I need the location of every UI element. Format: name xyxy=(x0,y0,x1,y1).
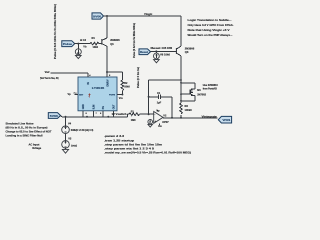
svg-text:2N7002: 2N7002 xyxy=(197,93,206,96)
voltage source at op-amp + input xyxy=(148,120,153,125)
svg-text:M1: M1 xyxy=(197,89,201,92)
pin numbers xyxy=(75,74,111,115)
svg-text:Q1: Q1 xyxy=(110,42,114,46)
ground (under I1) xyxy=(76,55,82,59)
svg-text:Q3: Q3 xyxy=(185,50,189,54)
junction bus/IC pin b xyxy=(107,116,109,118)
svg-text:Pulse (0 3v3 100n 5n 5n 200n 5: Pulse (0 3v3 100n 5n 5n 200n 500u 800m) xyxy=(53,4,57,59)
wire Reset to Q3 base xyxy=(151,50,177,52)
svg-text:Vb: Vb xyxy=(83,45,87,48)
junction R2/IC right pin xyxy=(121,94,123,96)
svg-text:2N3906: 2N3906 xyxy=(185,46,195,50)
svg-text:V01: V01 xyxy=(222,118,231,122)
voltage source V3 eta xyxy=(62,138,77,149)
comment simulated line noise (bottom left) xyxy=(6,121,52,137)
svg-text:td C4: td C4 xyxy=(80,39,87,42)
mosfet M1 2N7002 xyxy=(190,87,206,98)
port flag Reset xyxy=(139,49,151,55)
svg-text:IN: IN xyxy=(88,82,90,85)
transistor Q1 2N3906 PNP xyxy=(101,38,120,46)
resistor R4 10k0 xyxy=(90,37,99,49)
svg-text:Only Have 3.3 V GPIO From FPGA: Only Have 3.3 V GPIO From FPGA. xyxy=(188,23,234,27)
wire bottom bus xyxy=(61,114,130,117)
svg-text:Vlogic: Vlogic xyxy=(144,12,153,16)
wire Vlogic rail xyxy=(104,16,182,46)
wire output row / Vintegrate xyxy=(163,117,218,119)
transistor Q3 2N3906 PNP xyxy=(176,46,195,56)
wire R3 bottom lead xyxy=(180,115,182,118)
svg-text:12 Vswitch: 12 Vswitch xyxy=(112,112,127,116)
capacitor C1 1uF feedback xyxy=(149,92,172,104)
wire R4 to Q1 base xyxy=(99,43,101,45)
wire source row xyxy=(181,98,195,101)
junction column/drain branch xyxy=(180,82,182,84)
pin stubs IC xyxy=(75,72,123,117)
svg-text:V8 10k0: V8 10k0 xyxy=(160,54,171,57)
svg-text:Landing in a SINC Filter Null: Landing in a SINC Filter Null xyxy=(6,134,43,138)
svg-text:Vp: Vp xyxy=(156,109,160,112)
svg-text:GND: GND xyxy=(83,104,85,109)
svg-text:Voltage: Voltage xyxy=(32,146,42,150)
svg-text:SINE(0 1.5 60 {td} 0 0): SINE(0 1.5 60 {td} 0 0) xyxy=(71,129,94,132)
svg-text:LT3045: LT3045 xyxy=(92,86,105,90)
junction bus/V4 column xyxy=(65,116,67,118)
svg-text:SET: SET xyxy=(79,95,84,97)
port flag 5V00 (top) xyxy=(92,13,104,19)
port flag Vintegrate out xyxy=(218,116,231,123)
junction Reset node xyxy=(155,50,157,52)
junction output/R3 xyxy=(180,117,182,119)
spice directives xyxy=(104,134,191,154)
svg-text:-: - xyxy=(154,112,155,116)
svg-text:(Vref Text is fine, 40): (Vref Text is fine, 40) xyxy=(40,77,59,80)
wire Q1 emitter up to rail xyxy=(106,16,108,38)
svg-text:AC Input: AC Input xyxy=(29,142,40,146)
IC U1 LT3045 xyxy=(78,77,117,111)
junction IC top / R2 xyxy=(106,71,108,73)
comment logic translation note (top right) xyxy=(188,18,234,37)
voltage source V8 xyxy=(154,51,171,58)
resistor R2 10k0 xyxy=(121,80,130,95)
port flag 5V00 (bottom input) xyxy=(48,113,60,119)
svg-text:OUT: OUT xyxy=(114,104,116,109)
resistor R3 100k0 xyxy=(180,103,193,114)
svg-text:ILIM: ILIM xyxy=(94,105,96,110)
pin 1 mark (red) xyxy=(88,93,90,97)
junction bus/IC pin a xyxy=(86,116,88,118)
svg-text:10k0: 10k0 xyxy=(93,46,99,49)
wire gate row xyxy=(181,93,189,95)
junction column/source row xyxy=(180,100,182,102)
svg-text:Pulse (0 3v3 1m 5u Wide 600m): Pulse (0 3v3 1m 5u Wide 600m) xyxy=(132,23,136,58)
svg-text:OP07: OP07 xyxy=(162,121,169,124)
svg-text:Would Turn on the PNP Always..: Would Turn on the PNP Always... xyxy=(188,33,233,37)
svg-text:2N3906: 2N3906 xyxy=(110,38,120,42)
svg-text:Note that Using Vlogic +5 V: Note that Using Vlogic +5 V xyxy=(188,28,230,32)
svg-text:5V00: 5V00 xyxy=(50,114,59,118)
svg-text:.model my_sw sw(Vt=0.5 Vh=.25: .model my_sw sw(Vt=0.5 Vh=.25 Ron=0.01 R… xyxy=(104,151,191,155)
wire R1 to op-amp minus xyxy=(140,113,154,115)
svg-text:Reset: Reset xyxy=(140,51,148,54)
svg-text:1µF: 1µF xyxy=(157,101,162,104)
wire Vref xyxy=(51,72,89,74)
voltage source V4 SINE xyxy=(62,117,94,134)
wire cap down leg xyxy=(171,97,173,118)
svg-text:EN/UV: EN/UV xyxy=(107,79,109,86)
svg-text:Vintegrate: Vintegrate xyxy=(202,115,218,119)
svg-text:1M0: 1M0 xyxy=(131,119,136,122)
svg-text:from Parts/63: from Parts/63 xyxy=(203,87,218,90)
wire op-amp node to column xyxy=(149,79,181,81)
junction feedback/C1 row xyxy=(148,96,150,98)
svg-text:PG: PG xyxy=(103,106,105,110)
svg-text:Reset C6 R6: Reset C6 R6 xyxy=(151,46,173,50)
svg-text:Logic Translation is Subtle...: Logic Translation is Subtle... xyxy=(188,18,232,22)
svg-text:Pulse: Pulse xyxy=(63,42,73,46)
op-amp U2 OP07 xyxy=(154,109,170,127)
svg-text:5V00: 5V00 xyxy=(93,14,102,18)
svg-text:PGFB: PGFB xyxy=(109,95,115,97)
wire V4 to V3 xyxy=(65,134,67,141)
svg-text:Pulse (2 0 1m 1u): Pulse (2 0 1m 1u) xyxy=(136,67,140,88)
wire Q1 collector down xyxy=(106,46,108,72)
node Vb junction xyxy=(77,43,79,45)
ground (under V8) xyxy=(154,59,160,63)
wire flag to node Vb xyxy=(75,43,90,45)
junction column/gate row xyxy=(180,93,182,95)
svg-text:R3: R3 xyxy=(185,104,189,108)
wire feedback vertical xyxy=(148,80,150,114)
junction feedback/minus input xyxy=(148,113,150,115)
wire to R2 xyxy=(107,72,122,80)
svg-text:100k0: 100k0 xyxy=(185,108,193,112)
junction rail/Q1 emitter xyxy=(106,15,108,17)
svg-text:Vref: Vref xyxy=(45,71,50,74)
junction output/C1 leg xyxy=(171,117,173,119)
svg-text:{eta}: {eta} xyxy=(71,144,77,147)
wire Q3 collector column xyxy=(180,56,182,103)
current source I1 xyxy=(75,44,81,55)
svg-text:Vp: Vp xyxy=(68,93,72,96)
ground (op-amp + input) xyxy=(148,124,152,127)
wire drain branch xyxy=(181,83,195,87)
svg-text:10k0: 10k0 xyxy=(124,86,130,89)
junction column/op-amp node xyxy=(180,79,182,81)
ground (under V3) xyxy=(62,148,68,153)
resistor R1 1M0 xyxy=(129,111,139,122)
port flag Pulse (input, Q1 base drive) xyxy=(62,41,75,47)
